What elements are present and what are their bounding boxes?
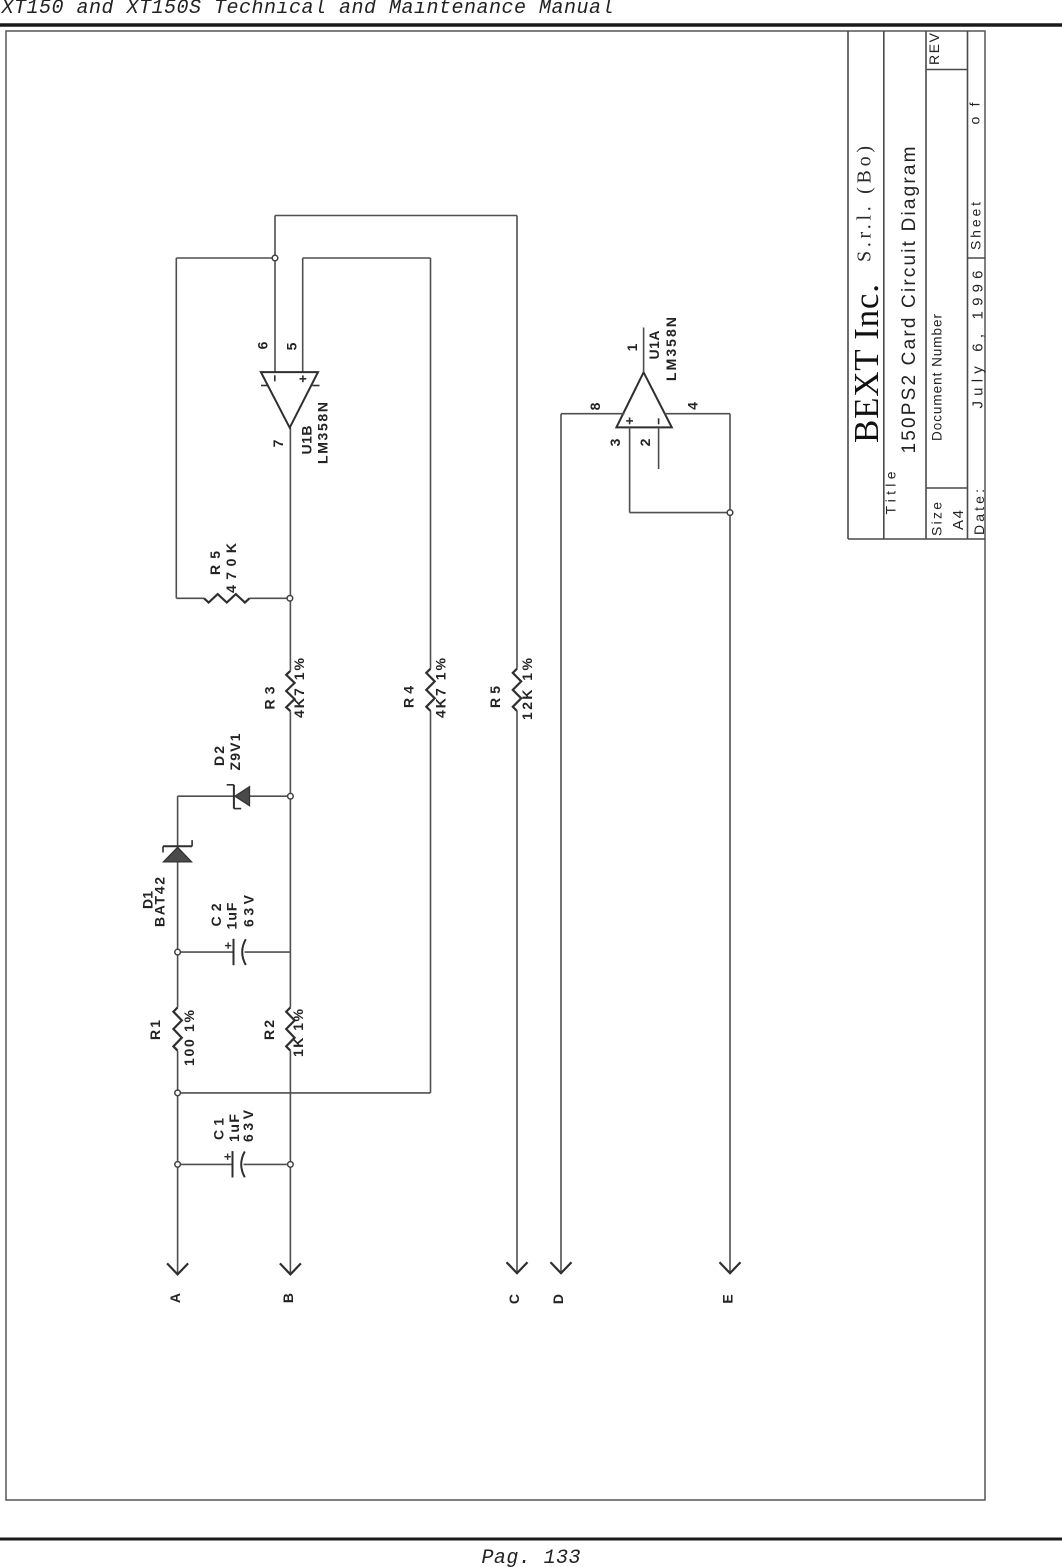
svg-text:D: D xyxy=(550,1294,566,1304)
svg-text:LM358N: LM358N xyxy=(315,402,331,464)
svg-text:Title: Title xyxy=(883,471,899,514)
svg-text:A4: A4 xyxy=(950,510,967,530)
svg-text:4K7 1%: 4K7 1% xyxy=(433,657,449,718)
svg-text:Size: Size xyxy=(929,502,945,536)
svg-text:100 1%: 100 1% xyxy=(181,1009,197,1066)
svg-text:150PS2 Card Circuit Diagram: 150PS2 Card Circuit Diagram xyxy=(899,147,920,454)
svg-text:Z9V1: Z9V1 xyxy=(227,733,243,770)
svg-text:R3: R3 xyxy=(262,686,278,709)
svg-text:7: 7 xyxy=(270,439,286,447)
svg-text:A: A xyxy=(167,1293,183,1303)
svg-text:Pag. 133: Pag. 133 xyxy=(482,1547,581,1567)
svg-text:63V: 63V xyxy=(241,894,257,927)
svg-text:REV: REV xyxy=(926,32,942,65)
svg-text:U1A: U1A xyxy=(646,331,662,360)
svg-text:July 6, 1996: July 6, 1996 xyxy=(970,271,987,409)
svg-text:C: C xyxy=(506,1294,522,1304)
svg-text:LM358N: LM358N xyxy=(663,317,679,381)
svg-text:Sheet: Sheet xyxy=(968,202,984,250)
svg-text:BEXT Inc.: BEXT Inc. xyxy=(847,284,886,443)
svg-text:R1: R1 xyxy=(147,1020,163,1040)
svg-text:of: of xyxy=(967,102,983,124)
svg-text:1uF: 1uF xyxy=(224,902,240,929)
svg-text:5: 5 xyxy=(284,342,300,350)
svg-text:BAT42: BAT42 xyxy=(152,877,168,927)
svg-text:D2: D2 xyxy=(211,746,227,766)
svg-text:S.r.l. (Bo): S.r.l. (Bo) xyxy=(854,146,876,262)
svg-text:U1B: U1B xyxy=(299,426,315,455)
svg-text:4: 4 xyxy=(685,402,701,410)
svg-text:XT150 and XT150S Technical and: XT150 and XT150S Technical and Maintenan… xyxy=(1,0,614,20)
svg-text:C2: C2 xyxy=(208,903,224,926)
svg-text:3: 3 xyxy=(607,438,623,446)
svg-text:R5: R5 xyxy=(487,686,503,708)
svg-text:470K: 470K xyxy=(223,543,239,593)
svg-text:B: B xyxy=(280,1293,296,1303)
svg-text:R4: R4 xyxy=(401,686,417,708)
svg-text:2: 2 xyxy=(637,438,653,446)
svg-text:R2: R2 xyxy=(261,1020,277,1040)
svg-text:8: 8 xyxy=(587,402,603,410)
svg-text:C1: C1 xyxy=(211,1118,227,1140)
svg-text:63V: 63V xyxy=(240,1109,256,1142)
svg-text:R5: R5 xyxy=(207,551,223,575)
svg-text:6: 6 xyxy=(255,341,271,349)
svg-text:Document Number: Document Number xyxy=(930,314,945,442)
svg-text:1: 1 xyxy=(624,343,640,351)
svg-text:4K7 1%: 4K7 1% xyxy=(291,657,307,718)
svg-text:1K 1%: 1K 1% xyxy=(290,1008,306,1057)
svg-text:12K 1%: 12K 1% xyxy=(519,657,535,720)
svg-text:E: E xyxy=(720,1294,736,1303)
